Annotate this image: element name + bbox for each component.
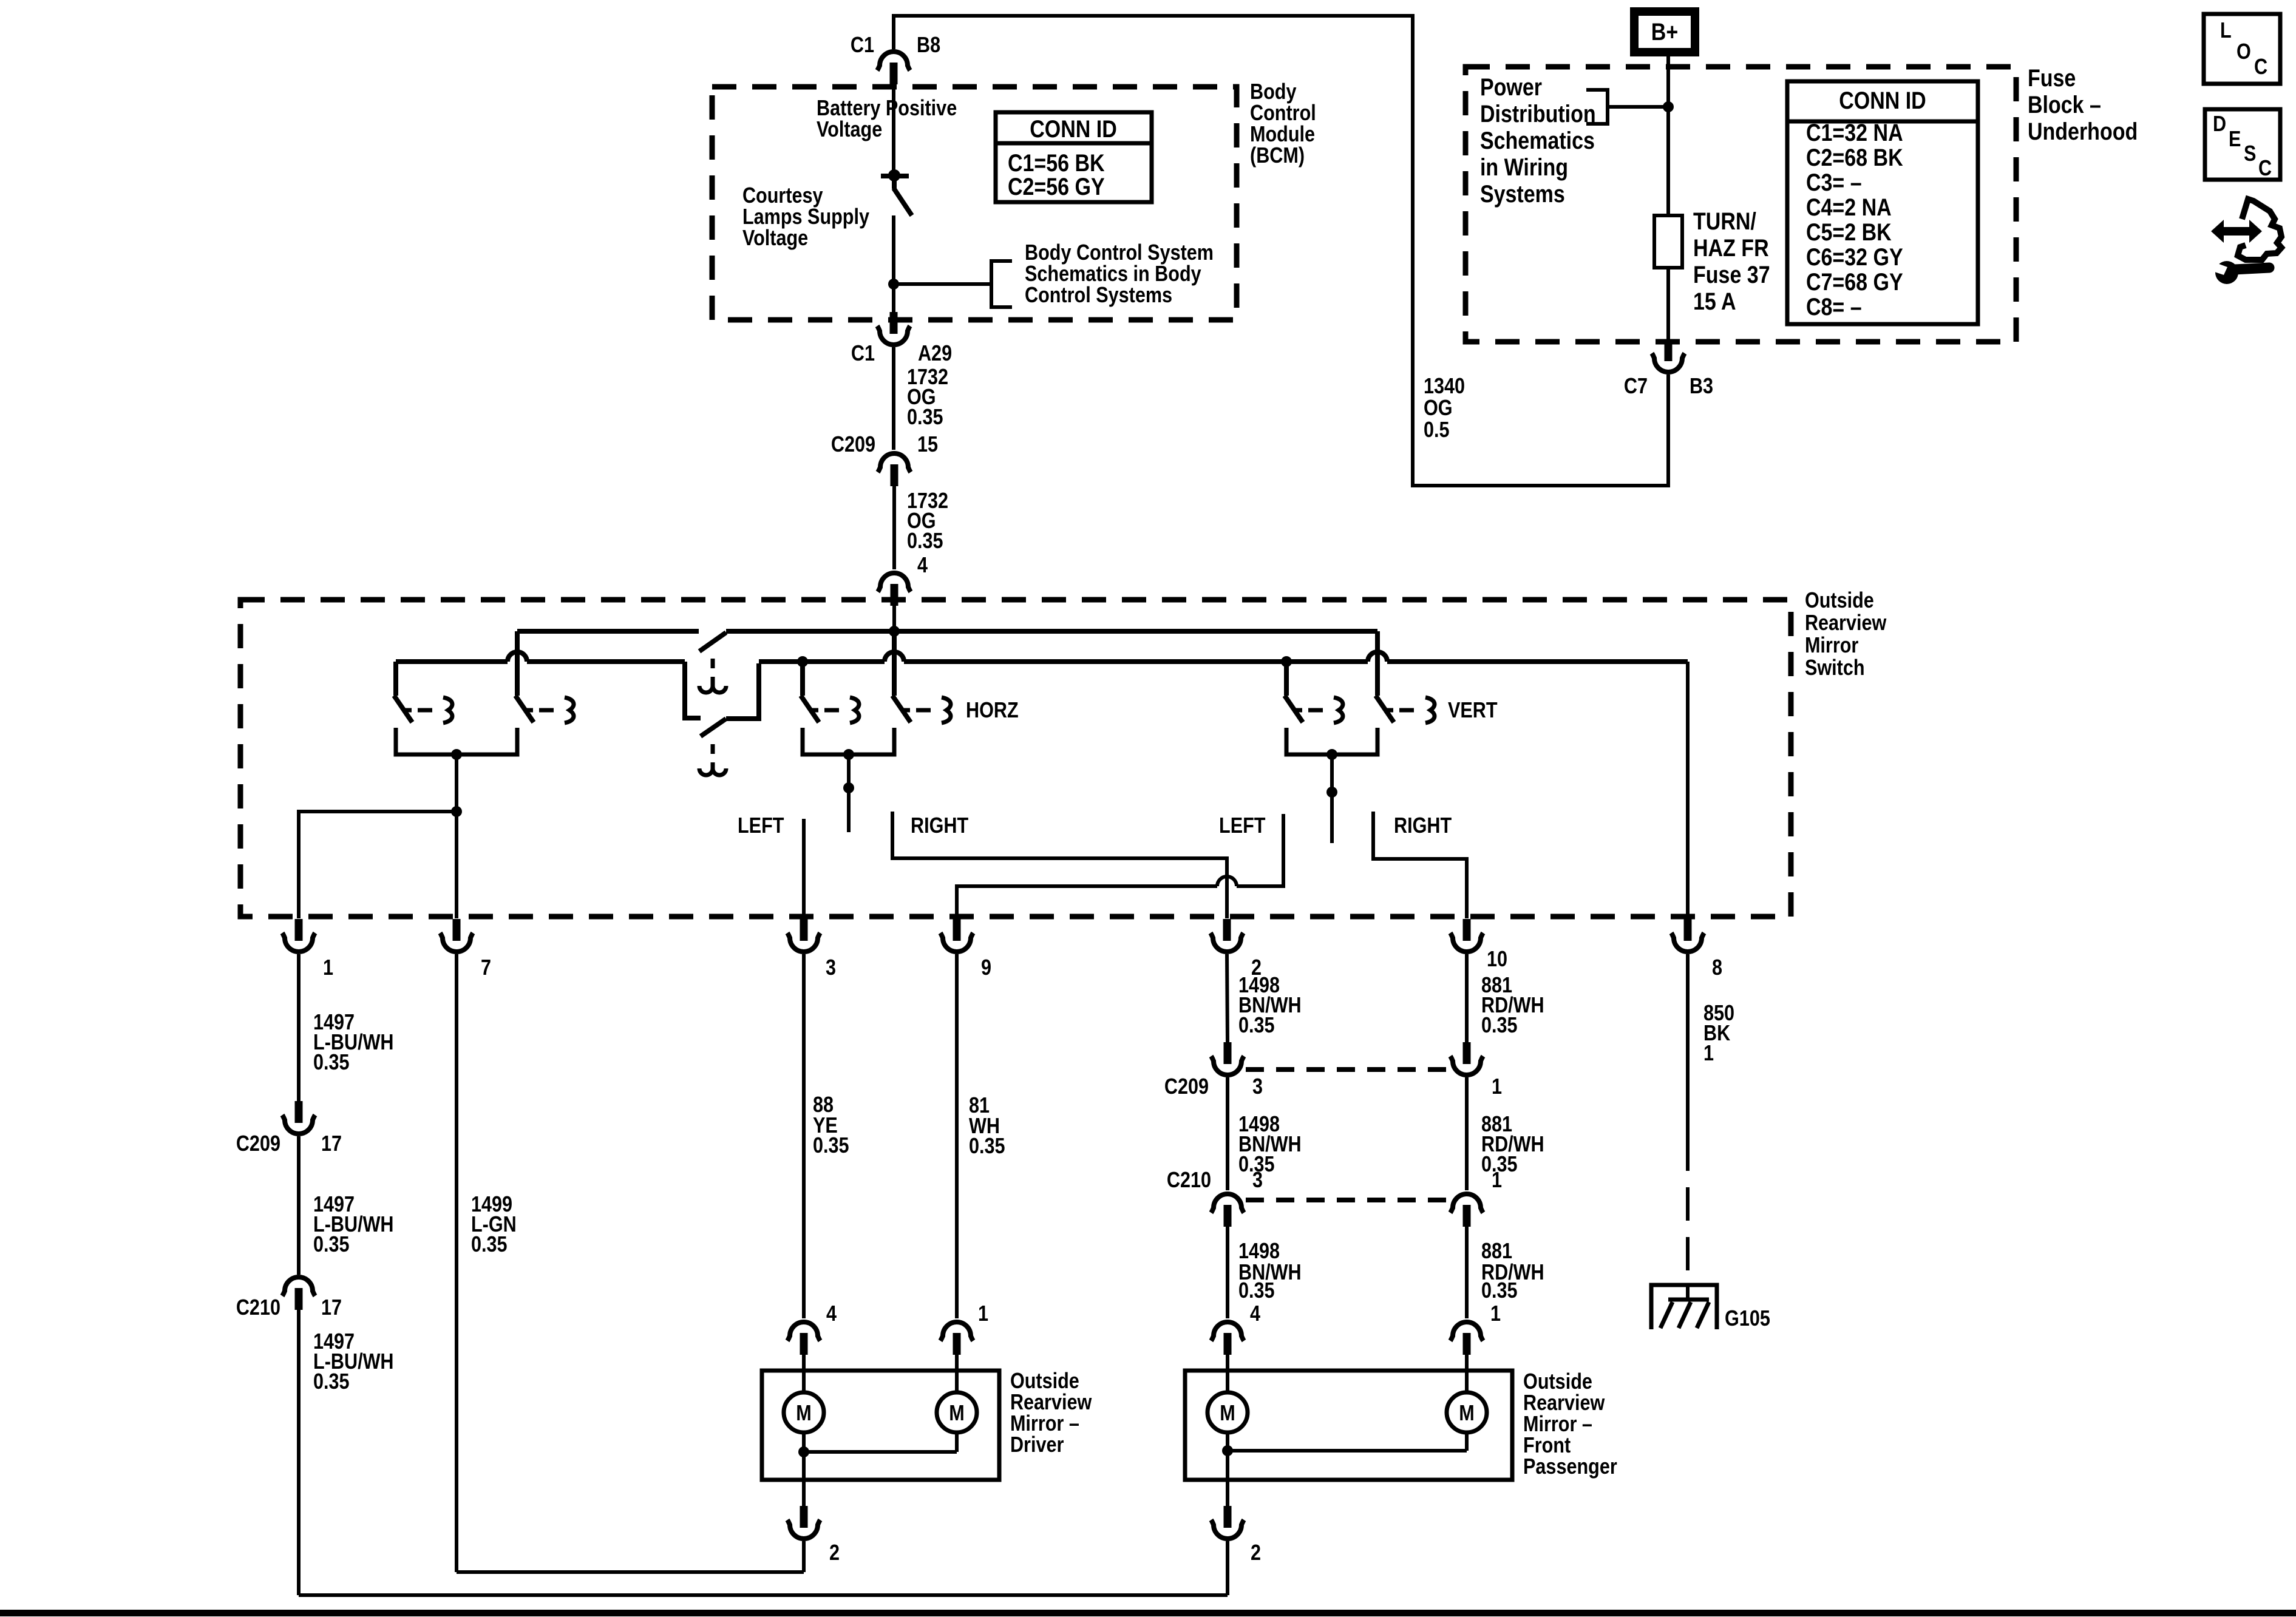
- svg-text:C209: C209: [831, 433, 875, 457]
- svg-text:C209: C209: [236, 1132, 280, 1156]
- svg-text:Schematics in Body: Schematics in Body: [1025, 262, 1201, 286]
- svg-text:D: D: [2213, 112, 2226, 137]
- wire branch: [894, 282, 991, 286]
- svg-text:Battery Positive: Battery Positive: [817, 97, 957, 121]
- node junction at fuse feed: [1663, 101, 1674, 112]
- connector switch pin 10: [1450, 933, 1483, 952]
- svg-text:Fuse 37: Fuse 37: [1693, 260, 1770, 288]
- left select switch left drop: [393, 662, 398, 696]
- shortcut arrow and wrench icon: [2211, 199, 2281, 284]
- wire 1497 pin1 to C209: [297, 954, 301, 1101]
- svg-text:S: S: [2244, 142, 2256, 166]
- wire LEFT VERT to pin 9: [1237, 814, 1283, 886]
- node branch pins 1 and 7: [451, 806, 462, 817]
- svg-text:Rearview: Rearview: [1805, 611, 1887, 636]
- svg-text:RIGHT: RIGHT: [911, 814, 969, 838]
- wire driver mirror pin 2: [802, 1452, 806, 1506]
- svg-text:C6=32 GY: C6=32 GY: [1806, 243, 1903, 270]
- svg-text:0.35: 0.35: [313, 1370, 350, 1394]
- svg-text:C1=32 NA: C1=32 NA: [1806, 118, 1903, 146]
- connector C7 B3: [1652, 353, 1685, 372]
- svg-text:C2=68 BK: C2=68 BK: [1806, 143, 1903, 171]
- svg-text:C: C: [2254, 55, 2267, 80]
- select switch lower contact: [685, 662, 701, 718]
- svg-text:M: M: [1220, 1402, 1235, 1426]
- left select switch bracket: [396, 728, 517, 754]
- left select switch right linkage: [526, 708, 533, 713]
- svg-text:L: L: [2220, 19, 2232, 43]
- svg-text:Fuse: Fuse: [2028, 64, 2076, 91]
- power distribution bracket: [1586, 90, 1608, 124]
- svg-text:Voltage: Voltage: [742, 226, 808, 251]
- node branch to body control systems: [888, 279, 899, 290]
- svg-text:0.35: 0.35: [969, 1134, 1005, 1159]
- connector C209 17: [282, 1115, 315, 1134]
- left select switch right blade: [515, 696, 534, 722]
- svg-text:Underhood: Underhood: [2028, 117, 2138, 144]
- outside rearview mirror driver box: [762, 1371, 999, 1480]
- svg-text:HORZ: HORZ: [966, 699, 1019, 723]
- svg-text:Control Systems: Control Systems: [1025, 283, 1172, 308]
- motor M passenger left: [1207, 1392, 1248, 1432]
- svg-text:0.35: 0.35: [313, 1233, 350, 1257]
- svg-text:M: M: [1459, 1402, 1474, 1426]
- svg-text:HAZ FR: HAZ FR: [1693, 234, 1769, 261]
- wire into passenger left motor: [1226, 1355, 1229, 1394]
- svg-text:E: E: [2229, 127, 2241, 152]
- svg-text:A29: A29: [918, 342, 952, 366]
- svg-text:1498: 1498: [1238, 1239, 1280, 1264]
- svg-text:C210: C210: [1167, 1168, 1211, 1193]
- wire 881 pin10 down: [1465, 954, 1469, 1042]
- select switch upper linkage: [711, 659, 715, 686]
- rail2 wire: [396, 659, 508, 664]
- BCM dashed box: [712, 87, 1237, 320]
- BCM internal switch node: [888, 169, 900, 181]
- svg-text:B+: B+: [1651, 18, 1678, 45]
- wire 1499 pin7 down: [455, 954, 458, 1572]
- node VERT output: [1326, 749, 1337, 760]
- C209 dashed jumper: [1246, 1067, 1450, 1072]
- page bottom border: [0, 1610, 2296, 1616]
- wire VERT output stub: [1330, 754, 1334, 843]
- svg-text:9: 9: [981, 956, 991, 980]
- off-page bracket body control: [991, 261, 1012, 307]
- connector switch pin 3: [787, 933, 820, 952]
- wire 1732 OG upper: [892, 347, 895, 450]
- wire feed into rail1: [892, 606, 896, 631]
- wire 1497 C210 down: [297, 1310, 301, 1595]
- wire 850 BK pin8 down: [1686, 954, 1690, 1137]
- svg-text:1: 1: [1492, 1168, 1502, 1193]
- wire 1497 C209 to C210: [297, 1136, 301, 1275]
- BCM internal switch contact: [881, 174, 909, 178]
- wire bracket to B+ node: [1608, 105, 1668, 109]
- VERT switch right linkage: [1386, 708, 1393, 713]
- ground G105 symbol: [1686, 1283, 1690, 1300]
- connector switch pin 8: [1671, 933, 1704, 952]
- svg-text:C5=2 BK: C5=2 BK: [1806, 218, 1892, 245]
- wire 81 WH pin9 down: [955, 954, 959, 1318]
- C210 dashed jumper: [1246, 1198, 1450, 1202]
- svg-text:1: 1: [1492, 1075, 1502, 1099]
- node VERT left: [1281, 656, 1292, 667]
- svg-text:G105: G105: [1725, 1307, 1770, 1331]
- svg-text:7: 7: [481, 956, 491, 980]
- wire into driver mirror left motor: [802, 1355, 806, 1394]
- svg-text:Driver: Driver: [1010, 1433, 1064, 1457]
- svg-text:3: 3: [1252, 1168, 1263, 1193]
- svg-text:Module: Module: [1250, 123, 1315, 147]
- wire 88 YE pin3 down: [802, 954, 806, 1318]
- VERT switch left drop: [1284, 662, 1289, 696]
- VERT switch left linkage: [1295, 708, 1302, 713]
- left select switch left blade: [394, 696, 412, 722]
- svg-text:Power: Power: [1480, 73, 1542, 100]
- bottom wire pin7 to driver pin2: [457, 1570, 804, 1574]
- HORZ switch left linkage: [811, 708, 818, 713]
- svg-text:1: 1: [323, 956, 333, 980]
- wire switch to exit: [892, 215, 895, 313]
- svg-text:0.35: 0.35: [1481, 1279, 1518, 1303]
- select switch lower common: [726, 663, 759, 719]
- left select switch left linkage: [404, 708, 412, 713]
- svg-text:Schematics: Schematics: [1480, 126, 1595, 154]
- connector C210 3: [1211, 1194, 1244, 1213]
- svg-text:C210: C210: [236, 1296, 280, 1320]
- svg-text:15: 15: [917, 433, 938, 457]
- svg-text:15 A: 15 A: [1693, 287, 1736, 314]
- connector driver mirror pin 1: [940, 1322, 973, 1341]
- connector passenger mirror pin 1: [1450, 1322, 1483, 1341]
- svg-text:C: C: [2258, 157, 2272, 181]
- connector driver mirror pin 4: [787, 1322, 820, 1341]
- connector switch pin 2: [1211, 933, 1243, 952]
- wire passenger motors common: [1226, 1432, 1229, 1451]
- HORZ switch bracket: [803, 728, 894, 754]
- connector C1 B8: [877, 52, 910, 70]
- wire C7 down-left-up to BCM: [894, 16, 1668, 486]
- svg-text:C2=56 GY: C2=56 GY: [1008, 172, 1105, 200]
- svg-text:OG: OG: [1424, 396, 1453, 421]
- HORZ switch left drop: [800, 662, 805, 696]
- wire 1732 OG lower: [892, 486, 896, 569]
- wire rail2 to pin 8: [1686, 662, 1690, 918]
- svg-text:1: 1: [1703, 1042, 1714, 1066]
- connector switch pin 9: [940, 933, 973, 952]
- svg-text:881: 881: [1481, 1239, 1512, 1264]
- svg-text:4: 4: [917, 554, 928, 578]
- HORZ switch right blade: [892, 696, 911, 722]
- svg-text:Lamps Supply: Lamps Supply: [742, 205, 869, 229]
- node driver motor common: [798, 1446, 809, 1457]
- wire passenger mirror pin 2: [1226, 1451, 1229, 1506]
- outside rearview mirror switch dashed box: [240, 600, 1791, 917]
- svg-text:Control: Control: [1250, 101, 1316, 126]
- VERT switch right drop: [1375, 631, 1380, 696]
- connector switch pin 7: [440, 933, 473, 952]
- svg-text:3: 3: [826, 956, 836, 980]
- svg-text:LEFT: LEFT: [738, 814, 784, 838]
- wire left select output: [455, 754, 458, 812]
- HORZ switch right drop: [892, 631, 897, 696]
- svg-text:Outside: Outside: [1523, 1370, 1592, 1394]
- select switch lower blade: [701, 719, 726, 736]
- svg-text:0.35: 0.35: [907, 405, 943, 430]
- left select switch right drop: [515, 631, 520, 696]
- node HORZ output mid: [843, 782, 854, 793]
- connector C209 15: [878, 453, 911, 472]
- svg-text:Body Control System: Body Control System: [1025, 241, 1214, 265]
- connector switch pin 4: [878, 573, 911, 592]
- DESC reference box: [2205, 109, 2280, 180]
- svg-text:Rearview: Rearview: [1523, 1391, 1605, 1415]
- svg-text:Courtesy: Courtesy: [742, 184, 823, 208]
- node passenger motor common: [1222, 1445, 1233, 1456]
- svg-text:Mirror –: Mirror –: [1523, 1412, 1592, 1437]
- svg-text:Mirror: Mirror: [1805, 634, 1858, 658]
- svg-text:CONN ID: CONN ID: [1839, 86, 1926, 114]
- node feed rail1: [889, 626, 900, 637]
- connector passenger mirror pin 4: [1211, 1322, 1244, 1341]
- svg-text:Outside: Outside: [1010, 1369, 1079, 1394]
- connector C1 A29: [877, 326, 910, 345]
- power feed B+ box: [1634, 12, 1695, 52]
- LEFT terminal HORZ stub: [802, 819, 806, 918]
- outside rearview mirror front passenger box: [1185, 1371, 1512, 1480]
- wire 1498 C210 down: [1226, 1227, 1229, 1318]
- HORZ switch left blade: [801, 696, 819, 722]
- connector driver mirror pin 2: [787, 1520, 820, 1539]
- svg-text:Mirror –: Mirror –: [1010, 1412, 1079, 1436]
- BCM CONN ID table: [996, 112, 1152, 202]
- svg-text:C7: C7: [1624, 375, 1648, 399]
- node VERT output mid: [1326, 787, 1337, 798]
- svg-text:LEFT: LEFT: [1219, 814, 1266, 838]
- connector C209 1: [1450, 1056, 1483, 1075]
- wire passenger pin2 to bottom: [1226, 1541, 1229, 1595]
- svg-text:0.35: 0.35: [471, 1233, 508, 1257]
- wire RIGHT HORZ to pin 2: [892, 812, 1227, 918]
- svg-text:Block –: Block –: [2028, 90, 2101, 118]
- wire to pin 7: [455, 812, 458, 918]
- svg-text:1: 1: [1490, 1302, 1501, 1326]
- svg-text:0.35: 0.35: [313, 1051, 350, 1075]
- wire HORZ output stub: [847, 754, 851, 832]
- svg-text:TURN/: TURN/: [1693, 207, 1756, 234]
- select switch upper blade: [699, 632, 726, 651]
- LOC reference box: [2204, 14, 2280, 84]
- svg-text:0.35: 0.35: [1238, 1014, 1275, 1038]
- VERT switch left blade: [1285, 696, 1303, 722]
- wire into driver mirror right motor: [955, 1355, 959, 1394]
- svg-text:C4=2 NA: C4=2 NA: [1806, 193, 1892, 220]
- svg-text:(BCM): (BCM): [1250, 144, 1305, 168]
- svg-text:C1: C1: [851, 33, 874, 58]
- svg-text:C1: C1: [851, 342, 875, 366]
- svg-text:2: 2: [1251, 1541, 1261, 1565]
- wire B+ to fuse: [1666, 55, 1670, 215]
- svg-text:0.35: 0.35: [1238, 1279, 1275, 1303]
- svg-text:Rearview: Rearview: [1010, 1391, 1092, 1415]
- select switch lower linkage: [711, 744, 715, 770]
- wire 881 C210 down: [1465, 1227, 1469, 1318]
- svg-text:B8: B8: [917, 33, 940, 58]
- svg-text:1340: 1340: [1424, 375, 1465, 399]
- svg-text:8: 8: [1712, 956, 1722, 980]
- wire into BCM switch: [892, 84, 895, 173]
- fuse block CONN ID table: [1787, 81, 1978, 324]
- wire fuse to connector C7: [1666, 268, 1670, 341]
- bottom wire pin1 to passenger pin2: [299, 1593, 1228, 1597]
- svg-text:Passenger: Passenger: [1523, 1455, 1617, 1479]
- motor M driver left: [784, 1392, 824, 1432]
- svg-text:Body: Body: [1250, 80, 1297, 104]
- svg-text:C3= –: C3= –: [1806, 168, 1862, 195]
- motor M driver right: [937, 1392, 977, 1432]
- svg-text:C7=68 GY: C7=68 GY: [1806, 268, 1903, 295]
- svg-text:C209: C209: [1164, 1075, 1209, 1099]
- svg-text:0.5: 0.5: [1424, 418, 1450, 442]
- svg-text:RIGHT: RIGHT: [1394, 814, 1452, 838]
- rail1 wire: [517, 629, 699, 634]
- svg-text:CONN ID: CONN ID: [1030, 115, 1117, 142]
- svg-text:17: 17: [321, 1132, 342, 1156]
- node left select output: [451, 749, 462, 760]
- svg-text:10: 10: [1487, 947, 1507, 972]
- wire RIGHT VERT to pin 10: [1373, 812, 1467, 918]
- svg-text:1: 1: [978, 1302, 988, 1326]
- connector switch pin 1: [282, 933, 315, 952]
- svg-text:3: 3: [1252, 1075, 1263, 1099]
- fuse TURN/HAZ FR Fuse 37 15A: [1654, 215, 1682, 268]
- svg-text:M: M: [796, 1402, 811, 1426]
- node HORZ left: [797, 656, 808, 667]
- node HORZ output: [843, 749, 854, 760]
- wire driver motors common: [802, 1432, 806, 1452]
- svg-text:B3: B3: [1690, 375, 1713, 399]
- svg-text:Switch: Switch: [1805, 656, 1865, 680]
- svg-text:Systems: Systems: [1480, 180, 1565, 207]
- svg-text:Distribution: Distribution: [1480, 100, 1596, 127]
- svg-text:4: 4: [1250, 1302, 1260, 1326]
- connector C210 1: [1450, 1194, 1483, 1213]
- wire 1498 pin2 down: [1227, 954, 1228, 1042]
- motor M passenger right: [1447, 1392, 1487, 1432]
- svg-text:2: 2: [829, 1541, 840, 1565]
- VERT switch right blade: [1376, 696, 1394, 722]
- svg-text:Voltage: Voltage: [817, 118, 882, 142]
- svg-text:Outside: Outside: [1805, 589, 1874, 613]
- HORZ switch right linkage: [903, 708, 910, 713]
- svg-text:in Wiring: in Wiring: [1480, 153, 1568, 180]
- VERT switch bracket: [1286, 728, 1377, 754]
- svg-text:C8= –: C8= –: [1806, 293, 1862, 320]
- svg-text:M: M: [949, 1402, 964, 1426]
- svg-text:17: 17: [321, 1296, 342, 1320]
- wire 1498 C209 to C210: [1226, 1077, 1229, 1190]
- BCM internal switch blade: [892, 178, 897, 189]
- svg-text:4: 4: [826, 1302, 837, 1326]
- wire into passenger right motor: [1465, 1355, 1469, 1394]
- svg-text:0.35: 0.35: [907, 529, 943, 554]
- svg-text:O: O: [2237, 40, 2251, 64]
- connector passenger mirror pin 2: [1211, 1520, 1244, 1539]
- wire to pin 1: [299, 812, 457, 918]
- wire 850 dashed to ground: [1686, 1137, 1690, 1283]
- svg-text:VERT: VERT: [1448, 699, 1498, 723]
- fuse block dashed box: [1466, 67, 2016, 342]
- connector C209 3: [1211, 1056, 1244, 1075]
- connector C210 17: [282, 1277, 315, 1296]
- svg-text:Front: Front: [1523, 1434, 1571, 1458]
- svg-text:0.35: 0.35: [1481, 1014, 1518, 1038]
- wire driver pin2 to bottom: [802, 1541, 806, 1572]
- wire 881 C209 to C210: [1465, 1077, 1469, 1190]
- svg-text:0.35: 0.35: [813, 1134, 849, 1158]
